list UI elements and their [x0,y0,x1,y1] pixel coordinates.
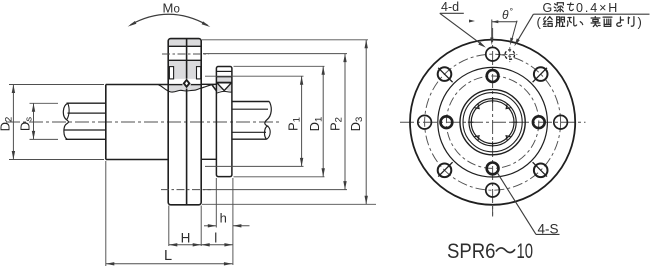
bore circles [460,90,525,155]
flange outer circle D3 [410,40,575,205]
svg-text:): ) [638,15,642,30]
4-d through holes [486,47,500,61]
disc groove V [217,83,232,91]
svg-text:(: ( [537,15,542,30]
pilot disc D1 outline [216,67,232,177]
bolt circle P2 [425,54,561,190]
break-out wavy line [159,84,217,92]
right shaft (screw shaft, broken end) [232,102,271,140]
dimension D3 [202,39,368,41]
4-S tapped holes [487,70,499,82]
pilot circle D1 [438,67,548,177]
svg-text:L: L [164,248,172,264]
svg-text:l: l [214,231,217,246]
pilot disc D1 gray band [216,77,232,83]
dimension H [168,206,170,247]
svg-text:G: G [543,1,553,15]
svg-text:SPR6: SPR6 [447,240,496,263]
bolt circle P1 [446,76,538,168]
dimension h [215,178,217,228]
dimension D2 [9,84,104,86]
flange joint line [186,39,188,79]
Mo moment arrow [131,14,208,25]
svg-text:°: ° [510,7,514,17]
disc wavy break [216,91,232,93]
dimension D1 [234,65,325,67]
svg-text:h: h [220,211,227,226]
dimension L [105,161,107,266]
body neck visible between flange and pilot disc [201,83,216,85]
right view centerlines [492,28,494,217]
theta angle dimension [491,20,493,41]
dimension P2 [203,53,347,55]
svg-text:10: 10 [517,240,534,263]
bolt hole centerline bottom [161,189,211,191]
bearing ball (section) [183,79,191,89]
dimension Ds [30,102,59,104]
seal slots in section [169,67,173,79]
svg-text:θ: θ [502,8,509,22]
flange section gray fill [168,39,201,47]
sectioned bolt hole in flange [168,45,201,47]
svg-text:M: M [163,1,174,16]
dimension P1 [205,75,304,77]
lock ring circles with notches [469,99,516,146]
svg-text:H: H [181,231,191,246]
flange outline D3 [168,39,201,205]
housing body cylinder [106,85,168,160]
G hole leader [533,13,649,15]
svg-text:4-d: 4-d [441,0,459,14]
dimension l [201,244,233,246]
disc chamfer line [216,70,232,72]
back-side counterbore holes (45 deg, slashed) [534,164,548,178]
svg-text:o: o [174,4,180,16]
bolt hole centerline top [162,53,209,55]
left shaft (screw shaft, broken end) [63,103,105,139]
main centerline [6,121,280,123]
svg-text:0.4×H: 0.4×H [576,1,619,15]
G grease hole (hidden, from back) [505,50,515,60]
